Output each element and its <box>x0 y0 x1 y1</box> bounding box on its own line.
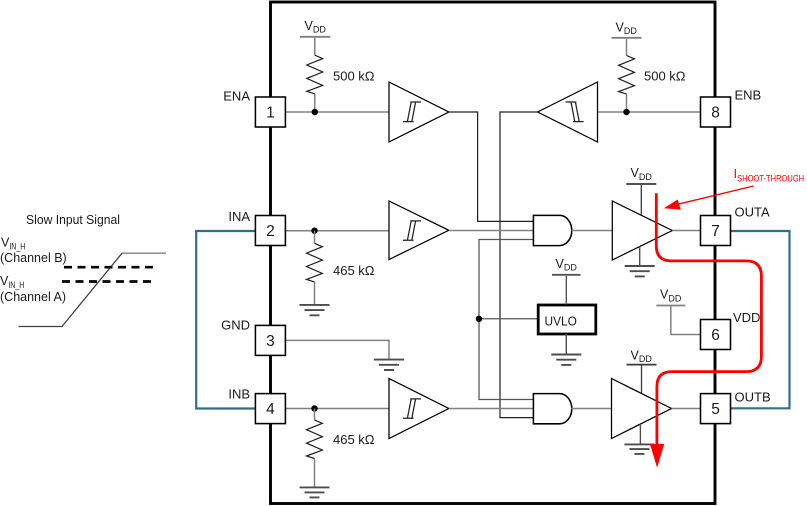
resistor R 500k (ENA) <box>307 55 323 94</box>
svg-text:4: 4 <box>266 401 275 418</box>
red shoot-through current path <box>656 193 761 445</box>
wire ENA resistor lead <box>314 94 316 112</box>
svg-text:(Channel B): (Channel B) <box>0 251 67 265</box>
teal net input bracket <box>196 231 255 409</box>
wire INB net <box>285 408 389 410</box>
IC boundary <box>271 2 716 504</box>
power VDD (UVLO) <box>552 257 581 305</box>
wire driver B to OUTB <box>672 408 701 410</box>
driver buffer B <box>612 379 672 439</box>
wire UVLO stub <box>479 318 538 320</box>
svg-text:6: 6 <box>711 327 720 344</box>
node ENB junction <box>623 109 629 115</box>
svg-text:465 kΩ: 465 kΩ <box>333 263 375 278</box>
node INA junction <box>311 228 317 234</box>
pin 6 <box>701 320 731 350</box>
node UVLO junction <box>476 316 482 322</box>
ground (driver B) <box>639 424 641 444</box>
threshold dashed line (Channel A) <box>62 280 156 283</box>
and gate A <box>533 215 571 245</box>
svg-text:Slow Input Signal: Slow Input Signal <box>26 212 120 227</box>
svg-text:7: 7 <box>711 223 720 240</box>
svg-text:500 kΩ: 500 kΩ <box>644 69 686 84</box>
svg-text:ENB: ENB <box>735 88 762 103</box>
pin 1 <box>255 97 285 127</box>
red arrowhead (current path end) <box>650 444 664 468</box>
svg-text:1: 1 <box>266 105 275 122</box>
svg-text:INB: INB <box>228 387 250 402</box>
svg-text:VDD: VDD <box>733 310 760 325</box>
pin 4 <box>255 394 285 424</box>
power VDD (ENA pull-up) <box>300 19 330 55</box>
wire UVLO routing <box>479 240 533 400</box>
wire INA buffer to AND A <box>449 230 534 232</box>
svg-text:5: 5 <box>711 401 720 418</box>
node ENA junction <box>312 109 318 115</box>
svg-text:OUTB: OUTB <box>735 390 771 405</box>
svg-text:VDD: VDD <box>616 20 638 36</box>
svg-text:3: 3 <box>266 333 275 350</box>
pin 5 <box>701 394 731 424</box>
teal net output loop <box>731 231 790 408</box>
resistor R 465k (INB) <box>307 409 323 488</box>
pin 2 <box>255 216 285 246</box>
power VDD (driver B) <box>627 348 657 393</box>
power VDD (driver A) <box>626 166 656 215</box>
svg-text:INA: INA <box>228 209 250 224</box>
resistor R 465k (INA) <box>307 231 323 305</box>
wire driver A to OUTA <box>672 230 700 232</box>
svg-text:UVLO: UVLO <box>545 314 578 328</box>
resistor R 500k (ENB) <box>619 56 635 95</box>
pin 8 <box>701 97 731 127</box>
node INB junction <box>311 405 317 411</box>
svg-text:GND: GND <box>221 317 250 332</box>
svg-text:(Channel A): (Channel A) <box>0 290 66 304</box>
wire ENB buffer output to AND B <box>500 112 538 418</box>
svg-text:ENA: ENA <box>223 89 250 104</box>
schmitt buffer ENA <box>389 82 449 142</box>
svg-text:500 kΩ: 500 kΩ <box>333 69 375 84</box>
svg-text:VDD: VDD <box>631 166 653 182</box>
schmitt buffer INB <box>389 379 449 439</box>
power VDD (pin 6) <box>656 288 700 335</box>
ground (driver A) <box>639 246 641 266</box>
svg-text:465 kΩ: 465 kΩ <box>333 432 375 447</box>
svg-text:VDD: VDD <box>556 257 578 273</box>
wire ENB resistor lead <box>626 94 628 112</box>
red annotation arrow <box>677 186 754 205</box>
pin 3 <box>255 325 285 355</box>
svg-text:8: 8 <box>711 105 720 122</box>
UVLO block <box>538 305 596 334</box>
wire AND B output <box>571 408 611 410</box>
svg-text:VIN_H: VIN_H <box>1 236 25 252</box>
svg-text:2: 2 <box>266 223 275 240</box>
ground (INA pulldown) <box>300 305 330 315</box>
wire ENA buffer output to AND A <box>449 112 534 221</box>
wire AND A output <box>571 230 612 232</box>
schmitt buffer ENB (points left) <box>538 82 598 142</box>
wire INA net <box>285 230 389 232</box>
and gate B <box>533 394 571 424</box>
threshold dashed line (Channel B) <box>64 266 156 269</box>
power VDD (ENB pull-up) <box>612 20 642 55</box>
waveform slow input signal <box>19 253 123 326</box>
svg-text:ISHOOT-THROUGH: ISHOOT-THROUGH <box>734 166 805 183</box>
schmitt buffer INA <box>389 201 449 260</box>
wire ENA net <box>285 111 389 113</box>
wire ENB net <box>598 111 701 113</box>
driver buffer A <box>612 201 672 260</box>
pin 7 <box>701 216 731 246</box>
wire GND net <box>285 340 389 359</box>
svg-text:OUTA: OUTA <box>735 205 770 220</box>
svg-text:VDD: VDD <box>305 19 327 35</box>
ground (UVLO) <box>565 334 567 355</box>
ground (INB pulldown) <box>300 487 330 497</box>
svg-text:VDD: VDD <box>631 348 653 364</box>
svg-text:VIN_H: VIN_H <box>0 274 24 290</box>
wire INB buffer to AND B <box>449 408 534 410</box>
ground (GND pin) <box>374 360 404 370</box>
svg-text:VDD: VDD <box>660 288 682 304</box>
